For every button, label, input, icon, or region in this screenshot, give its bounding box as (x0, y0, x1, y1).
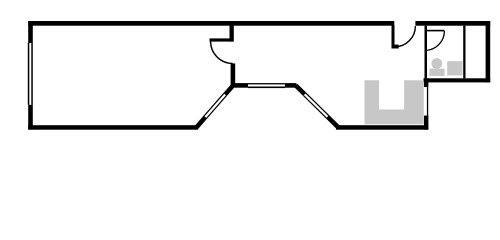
door D3 leaf (426, 30, 445, 32)
south wall nub right of window W3 (285, 83, 297, 88)
right wall upper stub (424, 78, 428, 87)
door D2 arc (395, 26, 416, 47)
bathroom west partition (425, 26, 428, 79)
left wall lower segment (28, 105, 33, 130)
bathroom divider partition (463, 26, 465, 79)
partition wall below door D1 (231, 63, 236, 86)
door D2 leaf (392, 25, 395, 48)
south wall nub left of window W3 (232, 83, 248, 88)
window W4 in SE diagonal (304, 93, 329, 118)
bathroom south wall (424, 78, 491, 82)
top wall left segment (28, 21, 394, 26)
door D2 foot (392, 45, 399, 49)
door D1 arc (211, 41, 233, 63)
top wall right segment (415, 21, 490, 26)
bottom wall right segment (336, 125, 428, 130)
door D1 leaf (210, 38, 234, 41)
washbasin counter (gray rect) (447, 61, 462, 75)
window W5 right thin line (427, 87, 428, 117)
partition stub above door D1 (230, 23, 234, 42)
east wall (486, 21, 491, 82)
window W2 in SW diagonal (204, 93, 226, 118)
bottom wall left segment (28, 125, 198, 130)
window W1 in left wall (28, 43, 33, 105)
toilet bowl (gray circle) (431, 58, 442, 69)
door D3 arc (426, 31, 445, 50)
toilet tank (gray rect) (429, 69, 444, 76)
diagonal wall SE (296, 86, 339, 128)
window W3 horizontal (248, 83, 285, 88)
diagonal wall SW (197, 86, 234, 128)
left wall upper segment (28, 21, 33, 43)
kitchen counter U shape (gray) (365, 80, 424, 124)
right wall lower segment (424, 116, 428, 130)
